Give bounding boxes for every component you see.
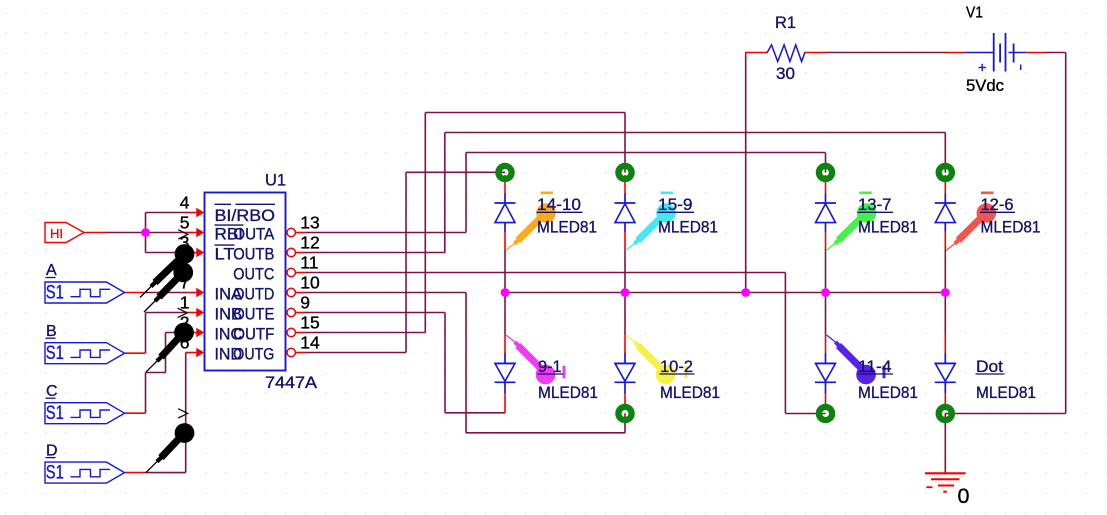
svg-text:MLED81: MLED81 [858,218,918,237]
svg-text:OUTB: OUTB [233,245,274,264]
wire net D: horizontal from stimulus D [146,472,186,474]
wire OUTD bottom run [466,432,625,434]
wire net D: vertical up to IND row [185,353,187,473]
LED D12-6 (MLED81) [935,194,956,232]
net label Dot [976,357,1005,376]
net label 9-1 [538,357,564,376]
wire OUTC (pin 11) horizontal [306,272,786,274]
net label D [46,442,58,459]
pin 3 input stub [187,252,198,254]
pin 4 input arrow [196,208,204,217]
svg-text:MLED81: MLED81 [537,218,597,237]
marker cyan (LED 15-9) [626,203,676,250]
wire OUTF drop into LED 15-9 top pad [624,113,626,173]
LED D15-9 bottom pin stub [624,231,626,250]
svg-text:MLED81: MLED81 [538,383,598,402]
svg-text:OUTG: OUTG [233,345,274,364]
wire LED column 12-6/Dot mid vertical [944,249,946,334]
pin 15 output bubble [287,328,295,336]
stimulus source S1 (net A) [45,282,125,303]
pin stub HI symbol [84,232,106,234]
R1 left pin [745,52,768,54]
wire OUTA vertical up [465,153,467,233]
LED D12-6 top pin stub [944,175,946,194]
wire LED column 15-9/10-2 mid vertical [624,249,626,334]
marker green level dash [859,192,872,195]
pin 1 input arrow [196,308,204,317]
svg-text:S1: S1 [46,403,64,424]
svg-text:13: 13 [300,212,319,232]
svg-text:12: 12 [300,232,319,252]
wire OUTE (pin 9) horizontal [306,312,446,314]
marker red (LED 12-6) [946,203,996,250]
svg-text:9: 9 [300,292,310,312]
LED D10-2 bottom pin stub [624,393,626,411]
connector pad top 14-10 [498,166,511,179]
pin name LT with overbar [215,245,235,264]
marker magenta level tick [563,366,566,379]
wire LED column 14-10/9-1 mid vertical [504,249,506,334]
marker M4 chevron [178,409,188,418]
svg-text:11-4: 11-4 [858,357,892,376]
wire net C: vertical from stimulus C [145,373,147,414]
pin 9 output stub [295,312,305,314]
svg-text:A: A [46,262,57,279]
LED D13-7 top pin stub [825,175,827,194]
LED DDot (MLED81) [935,353,956,393]
pin 10 output bubble [287,288,295,296]
junction bus R1 [741,288,750,297]
ground symbol (0 net) [925,473,966,491]
pin 12 output bubble [287,248,295,256]
pin 5 input arrow [196,228,204,237]
marker M4 (probe on chip input) [146,423,194,473]
wire ground stem [944,414,946,474]
wire HI net: horizontal from HI pin to chip pin 5 [105,232,187,234]
svg-text:12-6: 12-6 [981,195,1014,214]
net label 14-10 [537,195,583,214]
connector pad top 12-6 [939,166,952,179]
svg-text:0: 0 [958,484,970,508]
wire net A: stimulus A to chip pin 7 INA [146,292,188,294]
LED D14-10 top pin stub [504,175,506,194]
svg-text:14-10: 14-10 [537,195,581,214]
wire net B: vertical from stimulus B up to INB row [145,313,147,354]
svg-text:S1: S1 [46,462,64,483]
wire OUTF top run to LED 15-9 column [425,112,625,114]
resistor R1 [767,45,805,62]
svg-text:D: D [46,442,58,459]
op-amp U1 body (7447A BCD decoder box) [205,193,286,371]
wire R1 left lead down to common bus [745,56,747,293]
svg-text:V1: V1 [966,5,983,22]
wire V1 minus terminal to right edge corner [1046,52,1066,54]
marker M3 chevron [178,308,188,317]
LED D14-10 (MLED81) [495,194,516,232]
R1 left pin elbow [745,53,747,59]
V1 minus pin [1025,52,1047,54]
wire OUTE vertical down [444,313,446,413]
pin 2 input stub [187,332,198,334]
pin 3 input arrow [196,248,204,257]
wire right edge vertical from V1 down [1065,53,1067,414]
pin 7 input arrow [196,288,204,297]
marker green (LED 13-7) [826,203,876,250]
wire OUTB vertical up [444,133,446,253]
svg-text:OUTE: OUTE [233,305,274,324]
wire HI net to pin 4 (BI/RBO) [146,212,188,214]
wire OUTB drop into LED 12-6 top pad [944,133,946,173]
wire OUTE to LED 9-1 bottom [445,412,505,414]
wire OUTA (pin 13) horizontal [306,232,467,234]
net label B [46,323,57,340]
wire net C: jog horizontal [146,372,166,374]
svg-text:14: 14 [300,332,320,352]
svg-text:9-1: 9-1 [538,357,562,376]
marker magenta (LED 9-1) [506,335,555,384]
LED D12-6 bottom pin stub [944,231,946,250]
marker violet (LED 11-4) [827,335,876,384]
LED D9-1 bottom pin stub [504,393,506,413]
pin 9 output bubble [287,308,295,316]
LED D9-1 (MLED81) [495,353,516,393]
net label 15-9 [658,195,695,214]
svg-text:15-9: 15-9 [658,195,693,214]
svg-text:LT: LT [215,245,235,264]
svg-text:15: 15 [300,312,319,332]
net label 11-4 [858,357,894,376]
svg-text:MLED81: MLED81 [981,218,1041,237]
svg-text:R1: R1 [775,13,796,32]
V1 minus sign [1020,65,1022,71]
pin 13 output stub [295,232,305,234]
pin 12 output stub [295,252,305,254]
svg-text:5Vdc: 5Vdc [966,76,1004,95]
svg-text:30: 30 [776,64,795,83]
svg-text:S1: S1 [46,282,64,303]
wire net B: horizontal to chip pin 1 INB [146,312,188,314]
wire OUTF (pin 15) horizontal [306,332,426,334]
net label A [46,262,58,279]
LED D11-4 bottom pin stub [825,393,827,411]
LED DDot top pin stub [944,334,946,354]
net label 13-7 [858,195,894,214]
pin 1 input stub [187,312,198,314]
svg-text:U1: U1 [265,171,286,190]
svg-text:C: C [46,383,58,400]
marker orange level dash [541,192,554,195]
connector pad top 13-7 [819,166,832,179]
stimulus source S1 (net C) [45,403,125,424]
LED D9-1 top pin stub [504,334,506,354]
LED DDot bottom pin stub [944,393,946,411]
pin 14 output bubble [287,348,295,356]
svg-text:4: 4 [180,193,190,213]
svg-text:MLED81: MLED81 [658,218,718,237]
wire OUTG vertical up [405,172,407,352]
junction bus col4 [941,288,950,297]
wire LED column 13-7/11-4 mid vertical [825,249,827,334]
pin 11 output bubble [287,268,295,276]
svg-text:B: B [46,323,57,340]
HI input port symbol [45,223,84,243]
LED D15-9 top pin stub [624,175,626,194]
wire common cathode bus [505,292,945,294]
svg-text:MLED81: MLED81 [976,383,1036,402]
pin name BI/RBO with overbar [215,204,276,225]
svg-text:OUTA: OUTA [233,225,275,244]
wire R1 to V1 plus terminal [826,52,948,54]
junction bus col2 [621,288,630,297]
connector pad bottom 11-4 [819,407,832,420]
pin 4 input stub [187,212,198,214]
svg-text:11: 11 [300,252,318,272]
svg-text:HI: HI [50,226,63,241]
pin 7 input stub [187,292,198,294]
marker orange (LED 14-10) [506,203,556,250]
LED D11-4 top pin stub [825,334,827,354]
pin 15 output stub [295,332,305,334]
net label C [46,383,58,400]
pin stub stimulus A [125,292,146,294]
stimulus source S1 (net D) [45,462,125,483]
svg-text:BI/RBO: BI/RBO [215,206,276,225]
svg-text:S1: S1 [46,343,64,364]
wire OUTA top run to LED 13-7 column [466,152,826,154]
voltage source V1 battery symbol [966,33,1026,72]
LED D11-4 (MLED81) [815,353,836,393]
pin stub stimulus B [125,352,146,354]
pin name RBI with overbar [215,225,244,244]
pin 10 output stub [295,292,305,294]
pin 6 input stub [187,352,198,354]
pin stub stimulus C [125,412,146,414]
net label 10-2 [660,357,695,376]
marker M2 chevron [177,248,187,257]
svg-text:OUTD: OUTD [233,285,274,304]
svg-text:10: 10 [300,272,320,292]
svg-text:7447A: 7447A [265,373,318,392]
svg-text:OUTC: OUTC [233,265,274,284]
V1 plus pin [946,52,966,54]
connector pad top 15-9 [618,166,631,179]
V1 plus sign [979,64,987,71]
svg-text:OUTF: OUTF [233,325,274,344]
pin 13 output bubble [287,228,295,236]
pin stub stimulus D [125,472,146,474]
wire OUTD (pin 10) horizontal [306,292,467,294]
pin 11 output stub [295,272,305,274]
wire OUTF vertical up [424,113,426,333]
junction HI net [141,228,150,237]
wire OUTA drop into LED 13-7 top pad [825,153,827,173]
marker M3 (probe on chip input) [146,323,194,373]
LED D10-2 top pin stub [624,334,626,354]
wire OUTG run to LED 14-10 top pad [406,171,505,173]
stimulus source S1 (net B) [45,343,125,364]
net label 12-6 [980,195,1015,214]
svg-text:13-7: 13-7 [858,195,892,214]
wire HI net: vertical joining pins 4,5,3 [145,213,147,253]
LED D14-10 bottom pin stub [504,231,506,250]
wire OUTB top run to LED 12-6 column [445,132,946,134]
LED D15-9 (MLED81) [615,194,636,232]
wire OUTB (pin 12) horizontal [306,252,445,254]
R1 right pin [805,52,827,54]
LED D13-7 (MLED81) [815,194,836,232]
wire OUTG (pin 14) horizontal [306,352,407,354]
svg-text:MLED81: MLED81 [660,383,720,402]
wire HI net to pin 3 (LT) [146,252,188,254]
pin 14 output stub [295,352,305,354]
wire OUTC vertical down [784,273,786,414]
pin 2 input arrow [196,328,204,337]
wire net C: vertical jog up to INC row [165,333,167,373]
junction bus col1 [501,288,510,297]
connector pad bottom 10-2 [618,407,631,420]
svg-text:5: 5 [180,213,190,233]
wire bottom right to Dot LED pad [945,413,1065,415]
wire net C: horizontal to chip pin 2 INC [166,332,188,334]
marker yellow (LED 10-2) [626,335,675,384]
pin 5 input stub [187,232,198,234]
svg-text:MLED81: MLED81 [858,383,918,402]
marker yellow level tick [685,366,688,379]
pin 6 input arrow [196,348,204,357]
marker red level dash [981,192,994,195]
LED D10-2 (MLED81) [615,353,636,393]
marker cyan level dash [661,192,674,195]
LED D13-7 bottom pin stub [825,231,827,250]
wire OUTD up into LED 10-2 bottom pad [624,414,626,433]
wire OUTC to LED 11-4 bottom pad [785,413,825,415]
marker M2 (probe on chip input) [144,263,193,313]
svg-text:Dot: Dot [976,357,1003,376]
marker M1 (probe on chip input) [140,244,194,297]
wire net D: horizontal to chip pin 6 IND [186,352,187,354]
junction bus col3 [821,288,830,297]
wire OUTD vertical down [465,293,467,433]
marker M1 chevron [178,230,188,239]
marker violet level tick [883,366,886,379]
svg-text:10-2: 10-2 [660,357,693,376]
connector pad bottom Dot [939,407,952,420]
